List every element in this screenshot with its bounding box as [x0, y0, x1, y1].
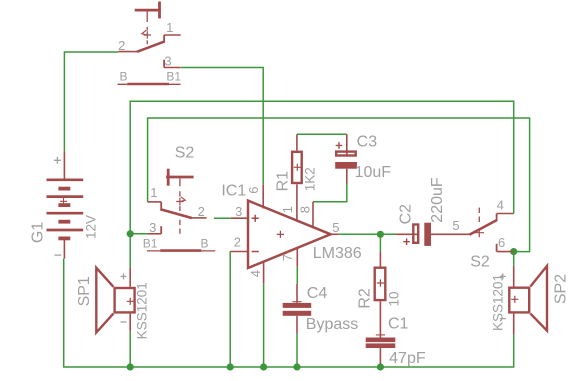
battery G1 polarity +	[54, 157, 61, 164]
capacitor C2	[396, 223, 452, 246]
wire C1 bottom to ground bus	[379, 363, 381, 367]
junction IC1 pin2 net on bus	[227, 363, 234, 370]
svg-text:6: 6	[246, 186, 261, 193]
svg-text:3: 3	[164, 54, 171, 69]
svg-text:R1: R1	[274, 171, 291, 192]
wire net C: S2 left pin1 up, across top, down right, to junction	[148, 118, 530, 252]
wire ground bus: battery- down, across bottom, up to SP2-	[64, 259, 514, 367]
wire SP1- to ground bus	[129, 331, 131, 367]
SP2 polarity -	[500, 318, 506, 320]
wire net C branch: junction to SP2+	[513, 252, 515, 266]
capacitor C3	[335, 134, 357, 183]
svg-text:8: 8	[297, 206, 312, 213]
wire IC1 pin7 to C4	[296, 267, 298, 284]
wire net B: SP1+ up, across top, down to S2 right pin4	[130, 101, 514, 267]
resistor R2	[375, 252, 386, 338]
SP1 polarity +	[121, 273, 127, 279]
capacitor C4	[283, 284, 312, 334]
svg-text:B: B	[200, 237, 208, 251]
SP1 polarity -	[121, 321, 127, 323]
svg-text:2: 2	[234, 235, 241, 250]
svg-text:7: 7	[280, 254, 295, 261]
junction C1 net on bus	[377, 363, 384, 370]
wire output junction down to R2	[379, 234, 381, 251]
SP2 polarity +	[500, 273, 506, 279]
svg-text:C1: C1	[388, 316, 409, 333]
wire R1 top to C3 top	[297, 133, 347, 135]
svg-text:C4: C4	[307, 285, 328, 302]
svg-text:SP2: SP2	[552, 274, 569, 304]
junction output/R2	[377, 231, 384, 238]
svg-text:220uF: 220uF	[429, 177, 446, 223]
svg-text:4: 4	[248, 270, 263, 277]
switch S1 (top)	[118, 2, 180, 68]
svg-text:10: 10	[386, 291, 401, 306]
wire IC1 pin2 to ground bus	[229, 252, 231, 368]
svg-text:1: 1	[150, 185, 157, 200]
svg-text:R2: R2	[357, 288, 374, 309]
junction IC1 pin4 net on bus	[260, 363, 267, 370]
svg-text:B1: B1	[166, 70, 181, 84]
svg-text:5: 5	[332, 220, 339, 235]
svg-text:KSS1201: KSS1201	[491, 274, 506, 331]
svg-text:S2: S2	[470, 254, 490, 271]
switch S2 (right)	[452, 208, 514, 252]
wire C3 bottom to IC1 pin8	[313, 184, 347, 202]
svg-text:6: 6	[498, 235, 505, 250]
wire net B branch: junction to S2 left pin3	[130, 233, 147, 235]
switch S2 (left)	[148, 169, 207, 234]
S2 left B1-B line	[147, 250, 215, 252]
svg-text:B1: B1	[143, 237, 158, 251]
svg-text:LM386: LM386	[313, 245, 362, 262]
svg-text:KSS1201: KSS1201	[134, 282, 149, 339]
speaker SP2	[509, 266, 547, 335]
S1 B-B1 line	[118, 83, 181, 85]
svg-text:IC1: IC1	[221, 182, 246, 199]
wire IC1 pin5 output to C2	[338, 233, 396, 235]
svg-text:1: 1	[280, 206, 295, 213]
wire S1 pin3 to IC1 pin6	[181, 68, 263, 185]
svg-text:5: 5	[452, 218, 459, 233]
svg-text:10uF: 10uF	[355, 164, 392, 181]
svg-text:47pF: 47pF	[389, 350, 426, 367]
svg-text:2: 2	[118, 38, 125, 53]
wire battery+ to S1 pin2	[64, 52, 118, 152]
capacitor C1	[366, 335, 396, 364]
svg-text:C2: C2	[398, 204, 415, 225]
svg-text:B: B	[119, 70, 127, 84]
junction C4 net on bus	[293, 363, 300, 370]
wire IC1 pin4 to ground bus	[263, 283, 265, 367]
svg-text:4: 4	[497, 197, 504, 212]
svg-text:12V: 12V	[84, 215, 99, 239]
svg-text:G1: G1	[30, 222, 47, 243]
svg-text:S2: S2	[175, 144, 195, 161]
svg-text:1: 1	[166, 20, 173, 35]
junction S2 right pin6/SP2+	[510, 248, 517, 255]
svg-text:C3: C3	[357, 134, 378, 151]
speaker SP1	[96, 268, 134, 333]
battery G1 polarity -	[55, 254, 62, 256]
svg-text:1K2: 1K2	[302, 167, 317, 191]
svg-text:3: 3	[235, 204, 242, 219]
svg-text:2: 2	[198, 204, 205, 219]
wire C4 bottom to ground bus	[296, 334, 298, 367]
junction SP1+/netB	[127, 230, 134, 237]
wire S2 left pin2 to IC1 pin3	[214, 217, 231, 219]
junction SP1- on bus	[127, 363, 134, 370]
svg-text:Bypass: Bypass	[306, 316, 358, 333]
svg-text:SP1: SP1	[76, 276, 93, 306]
svg-text:3: 3	[149, 220, 156, 235]
op-amp IC1 LM386	[230, 184, 338, 283]
battery G1	[47, 152, 84, 259]
resistor R1	[292, 134, 302, 183]
